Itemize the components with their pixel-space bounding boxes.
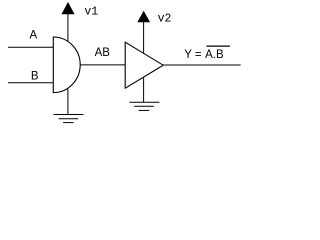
svg-text:v2: v2 <box>158 13 172 26</box>
wire input B <box>8 82 53 84</box>
wire input A <box>8 46 53 48</box>
power arrow v1 <box>62 2 75 14</box>
overline on A.B <box>206 45 230 47</box>
wire ground stem U2 <box>143 77 145 102</box>
wire v1 stem <box>67 14 69 41</box>
svg-text:v1: v1 <box>84 5 98 18</box>
ground under U2 <box>130 102 160 110</box>
wire ground stem U1 <box>67 89 69 115</box>
svg-text:AB: AB <box>95 47 111 59</box>
wire output Y <box>163 64 241 66</box>
AND gate U1 <box>53 37 80 93</box>
svg-text:A.B: A.B <box>205 49 224 61</box>
svg-text:B: B <box>31 71 39 83</box>
svg-text:Y =: Y = <box>184 49 202 61</box>
power arrow v2 <box>137 11 150 23</box>
wire v2 stem <box>143 22 145 54</box>
buffer U2 <box>125 42 163 88</box>
wire AB <box>80 64 125 66</box>
svg-text:A: A <box>30 30 38 42</box>
ground under U1 <box>54 115 84 123</box>
